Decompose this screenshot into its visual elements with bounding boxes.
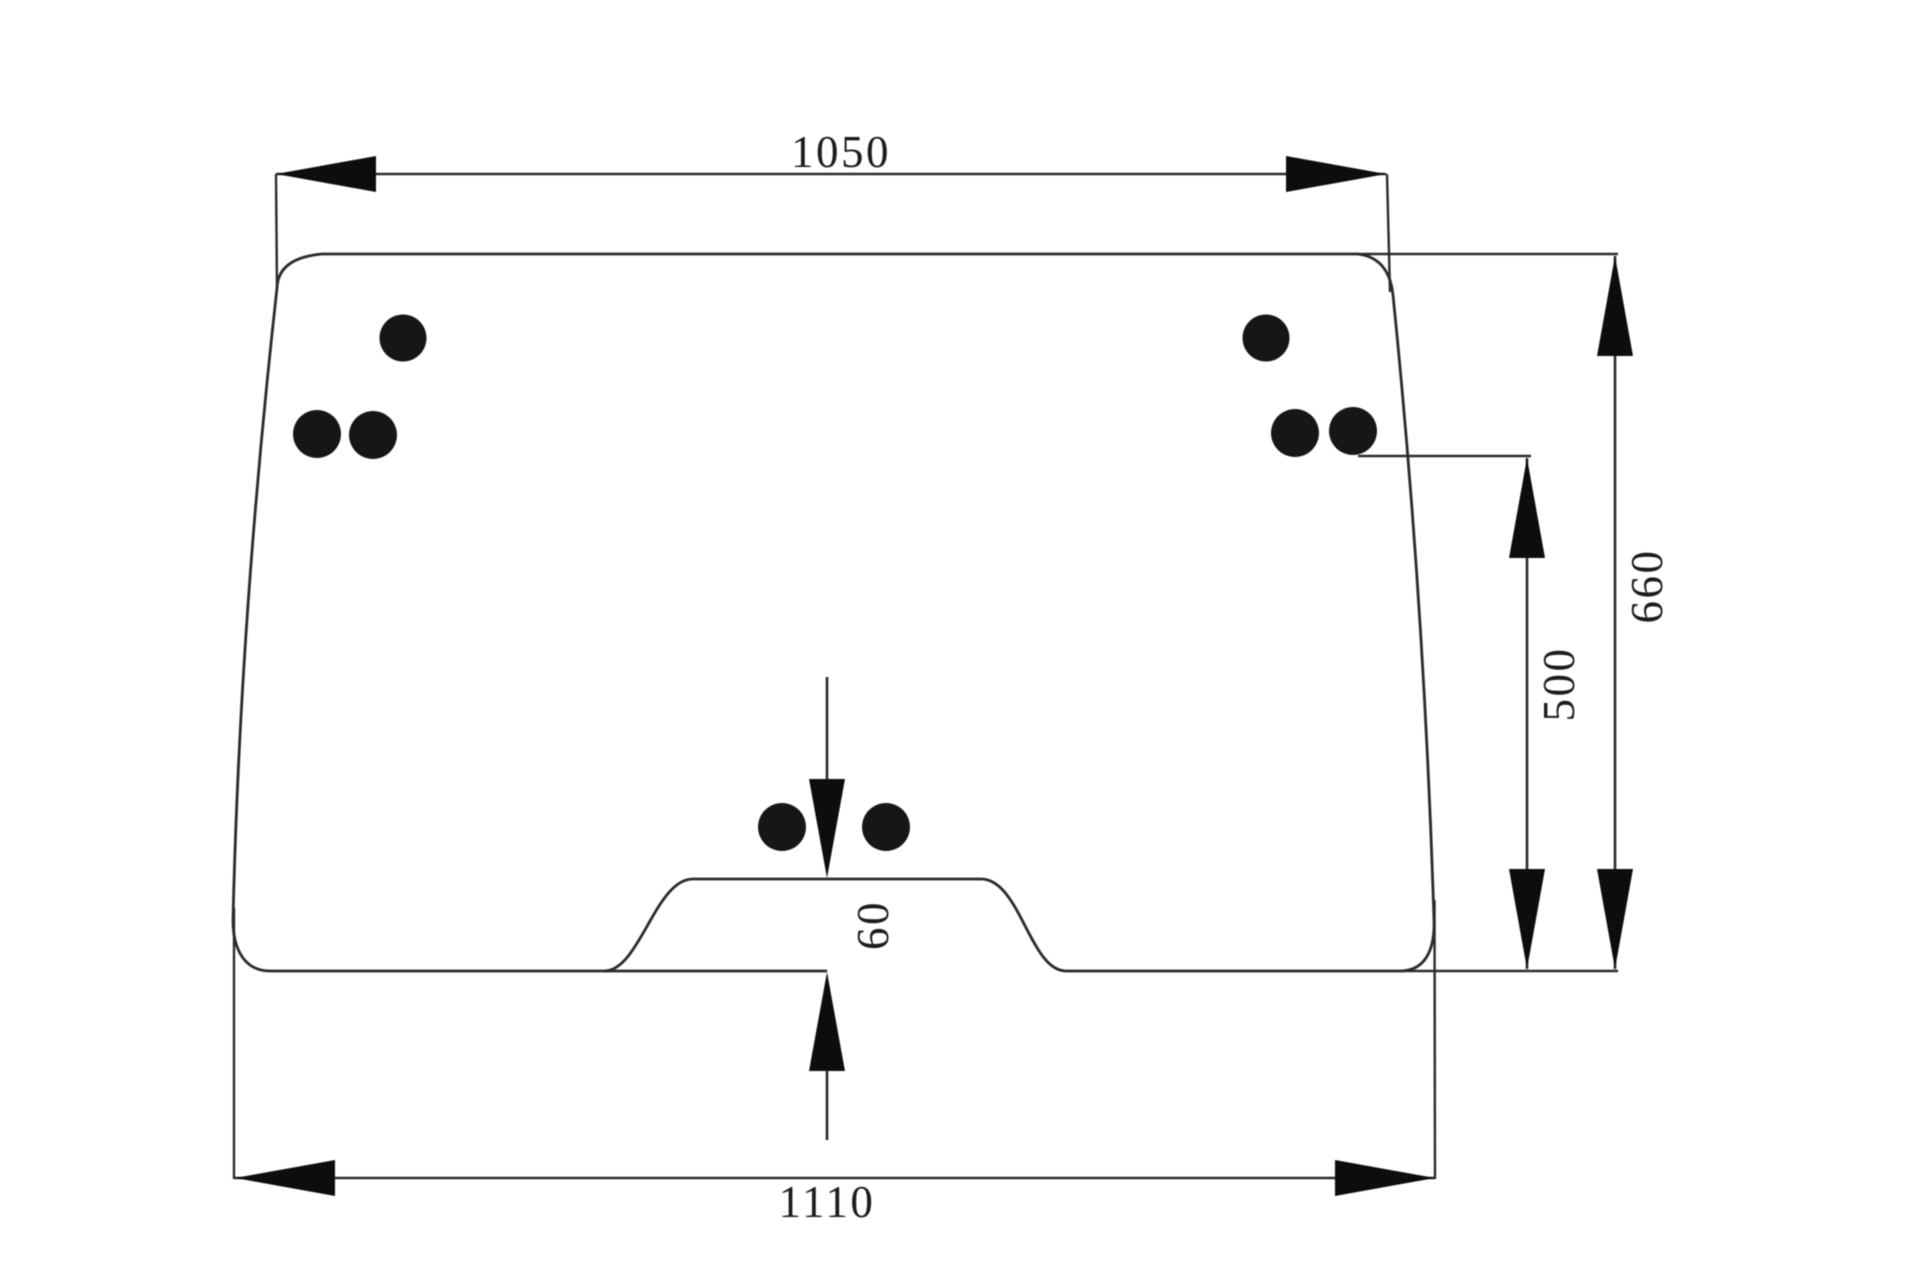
hole left pair B <box>349 411 397 459</box>
svg-text:1050: 1050 <box>791 127 891 177</box>
arrowhead 1050 right <box>1286 156 1386 192</box>
hole left pair A <box>293 410 341 458</box>
dimension line 1050 <box>276 173 1386 176</box>
arrowhead 60 down <box>809 779 845 878</box>
top edge extension to 660 dimension <box>1357 253 1618 256</box>
hole top-left <box>380 315 427 362</box>
arrowhead 500 top <box>1509 458 1545 558</box>
svg-text:60: 60 <box>848 900 898 950</box>
dimension line 1110 <box>235 1177 1435 1180</box>
extension line top-left <box>276 174 277 290</box>
hole right pair A <box>1271 409 1319 457</box>
hole bottom pair A <box>758 803 806 851</box>
hole right pair B <box>1329 407 1377 455</box>
extension line top-right <box>1387 174 1390 292</box>
arrowhead 500 bottom <box>1509 869 1545 969</box>
bottom extension line right (to 660/500 dimension ends) <box>1400 970 1618 973</box>
svg-text:660: 660 <box>1622 549 1672 624</box>
arrowhead 1050 left <box>276 156 376 192</box>
svg-text:1110: 1110 <box>779 1177 876 1227</box>
arrowhead 1110 left <box>235 1160 335 1196</box>
arrowhead 1110 right <box>1335 1160 1435 1196</box>
glass panel outline <box>233 254 1434 971</box>
dimension line 500 <box>1526 458 1529 969</box>
line under notch (dimension reference to 60 arrow) <box>604 970 827 973</box>
hole top-right <box>1243 315 1290 362</box>
dimension line 660 <box>1614 256 1617 969</box>
svg-text:500: 500 <box>1534 647 1584 722</box>
extension line bottom-left <box>233 908 235 1179</box>
extension line bottom-right <box>1433 900 1436 1179</box>
hole bottom pair B <box>862 803 910 851</box>
arrowhead 660 top <box>1597 256 1633 356</box>
dimension line 60 lower <box>826 990 829 1140</box>
extension line for 500 (below right hole pair) <box>1358 455 1531 457</box>
arrowhead 660 bottom <box>1597 869 1633 969</box>
arrowhead 60 up <box>809 972 845 1071</box>
dimension line 60 upper <box>826 677 829 800</box>
